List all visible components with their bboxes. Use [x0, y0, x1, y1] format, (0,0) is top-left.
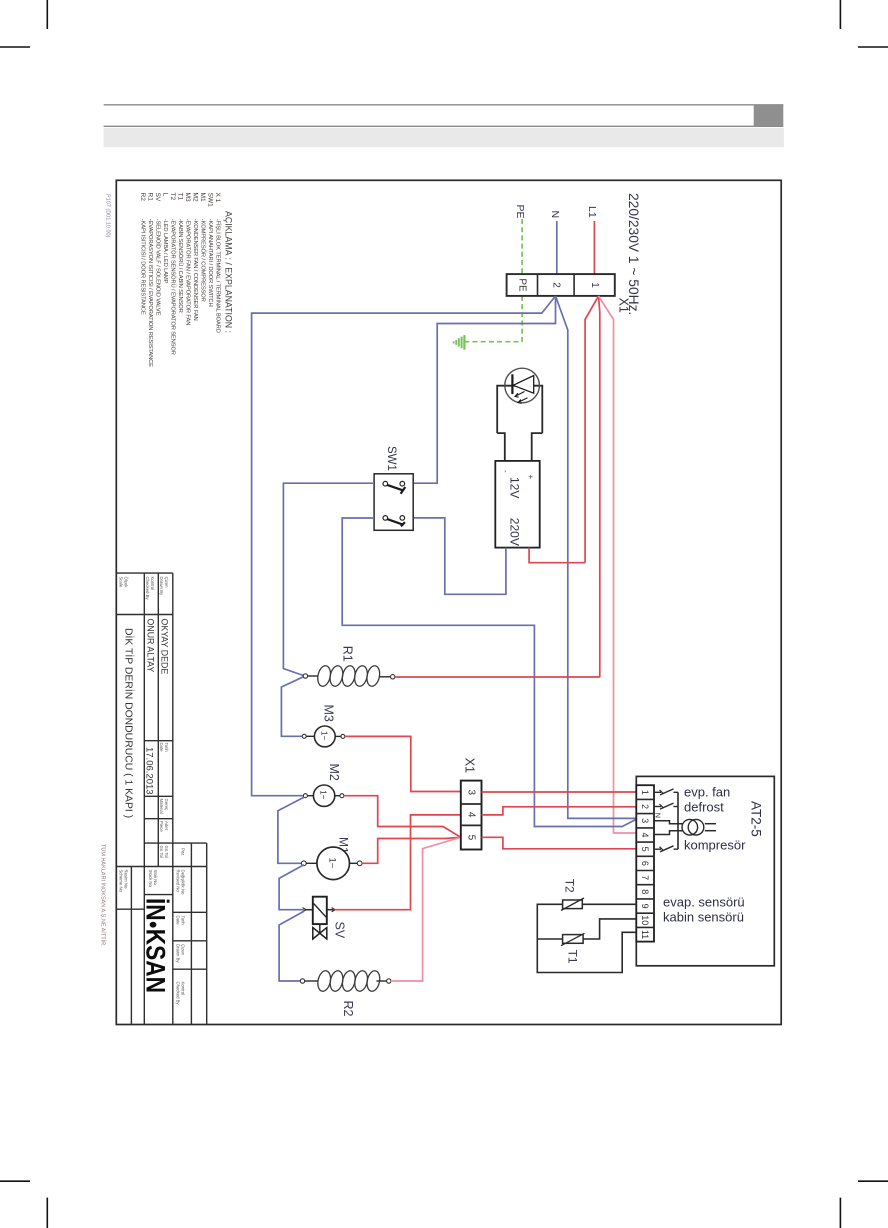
wire: R1 to live rail B (red) [395, 676, 600, 678]
SW1 contact B [383, 516, 388, 521]
svg-text:R2: R2 [341, 1001, 355, 1017]
svg-text:Scheme No: Scheme No [119, 870, 124, 893]
svg-text:5: 5 [466, 835, 477, 841]
svg-text:SV: SV [333, 922, 347, 939]
crop mark top-left [0, 0, 47, 47]
wire pin 4 to compressor winding [654, 831, 683, 835]
svg-text:-LED LAMBA / LED LAMP: -LED LAMBA / LED LAMP [162, 219, 168, 284]
svg-text:T1: T1 [177, 193, 184, 201]
evp. fan relay contact [654, 791, 661, 793]
svg-text:Piece: Piece [159, 821, 164, 832]
SW1 contact A [383, 481, 388, 486]
svg-text:T1: T1 [566, 950, 580, 964]
svg-text:M1: M1 [199, 193, 206, 202]
svg-text:1~: 1~ [319, 790, 328, 799]
wire L1 (red) [593, 221, 595, 274]
wire: transformer 220V red to live rail A [529, 548, 585, 563]
svg-text:10: 10 [640, 915, 650, 925]
svg-text:SW1: SW1 [207, 193, 214, 208]
lamp feed wires (fork) [497, 386, 542, 433]
svg-text:-EVAPORASYON ISITICISI / EVAPO: -EVAPORASYON ISITICISI / EVAPORATION RES… [147, 219, 153, 367]
wire T2 to pin 9 [582, 903, 636, 905]
svg-text:1: 1 [640, 790, 650, 795]
header rule bar [104, 105, 784, 127]
svg-text:3: 3 [640, 818, 650, 823]
svg-text:-EVAPORATÖR SENSÖRÜ / EVAPORAT: -EVAPORATÖR SENSÖRÜ / EVAPORATOR SENSOR [170, 219, 177, 355]
compressor winding symbol [682, 819, 698, 835]
svg-text:4: 4 [466, 812, 477, 818]
wire: neutral to AT2-5 term 3 (blue) [556, 296, 637, 818]
svg-text:8: 8 [640, 889, 650, 894]
title block grid [116, 573, 206, 1024]
drawing frame border [116, 180, 781, 1024]
LED lamp L [505, 368, 540, 403]
svg-text:Date: Date [159, 743, 164, 753]
svg-text:-: - [501, 470, 510, 473]
svg-text:220V: 220V [508, 518, 522, 546]
wire pin 3 to compressor winding [654, 821, 683, 824]
svg-text:T2: T2 [563, 879, 577, 893]
svg-text:-KAPI ISITICISI / DOOR RESISTA: -KAPI ISITICISI / DOOR RESISTANCE [140, 219, 146, 315]
PE wire continuation to earth [521, 296, 523, 342]
svg-text:defrost: defrost [684, 800, 724, 815]
svg-text:M2: M2 [327, 764, 341, 781]
svg-text:L: L [162, 193, 169, 197]
svg-text:İN●KSAN: İN●KSAN [141, 898, 171, 993]
svg-text:kabin sensörü: kabin sensörü [663, 910, 744, 925]
svg-text:11: 11 [640, 930, 650, 939]
svg-text:evp. fan: evp. fan [684, 785, 730, 800]
wire: neutral tap SV to R2 (blue) [279, 911, 304, 981]
svg-text:X 1: X 1 [214, 193, 221, 203]
svg-text:M3: M3 [184, 193, 191, 202]
svg-text:Poz: Poz [181, 848, 186, 855]
wire: M3 to X1 pin 3 (red) [345, 736, 461, 791]
svg-text:T2: T2 [169, 193, 176, 201]
svg-text:-KAPI ANAHTARI / DOOR SWITCH: -KAPI ANAHTARI / DOOR SWITCH [207, 219, 213, 307]
svg-text:2: 2 [550, 282, 561, 288]
AT2-5 terminal strip 1-11 [636, 785, 654, 941]
svg-text:Date: Date [176, 916, 181, 926]
svg-text:+: + [526, 475, 535, 480]
wire: X1 pin 5 to AT2-5 term 5 (red) [482, 837, 637, 849]
svg-text:TÜM HAKLARI İNOKSAN A.Ş.NE AİT: TÜM HAKLARI İNOKSAN A.Ş.NE AİTTİR. [100, 844, 107, 947]
svg-text:1: 1 [589, 282, 600, 288]
svg-text:R2: R2 [139, 193, 146, 202]
wire N (blue) [556, 221, 558, 274]
svg-text:Revised No: Revised No [176, 870, 181, 893]
svg-text:R1: R1 [147, 193, 154, 202]
svg-text:Scale: Scale [119, 577, 124, 588]
svg-text:N: N [549, 211, 561, 219]
wire: R2 to X1 pin 5 (pink) [391, 837, 461, 981]
svg-text:PE: PE [517, 278, 528, 292]
wire: live rail C (pink) to AT2-5 term 4 [599, 296, 637, 833]
svg-text:ONUR ALTAY: ONUR ALTAY [145, 619, 155, 673]
svg-text:-KOMPRESÖR / COMPRESSOR: -KOMPRESÖR / COMPRESSOR [200, 219, 207, 302]
wire PE (green dashed) [521, 219, 523, 274]
svg-text:5: 5 [640, 847, 650, 852]
wire: SW1 contact A to loads rail (blue) [283, 483, 374, 675]
svg-text:evap. sensörü: evap. sensörü [663, 895, 745, 910]
terminal block X1 (power) [507, 274, 615, 296]
svg-text:17.06.2013: 17.06.2013 [144, 747, 155, 795]
svg-text:1~: 1~ [319, 731, 328, 740]
wire: X1 pin 3 to AT2-5 term 1 (red) [482, 791, 637, 793]
svg-text:-KABİN SENSÖRÜ / CABIN SENSOR: -KABİN SENSÖRÜ / CABIN SENSOR [177, 219, 184, 313]
svg-text:Drawn By: Drawn By [159, 577, 164, 596]
svg-text:X1: X1 [617, 298, 631, 313]
svg-text:AT2-5: AT2-5 [749, 801, 764, 837]
svg-text:Gn.Tol: Gn.Tol [159, 846, 164, 858]
svg-text:Checked By: Checked By [145, 577, 150, 601]
svg-text:12V: 12V [508, 477, 522, 498]
svg-text:-EVAPORATÖR FAN / EVAPORATOR F: -EVAPORATÖR FAN / EVAPORATOR FAN [185, 219, 192, 325]
wire: neutral tap M1 to SV (blue) [279, 865, 304, 910]
svg-text:X1: X1 [462, 758, 476, 773]
resistor R2 (door heater) [300, 979, 304, 983]
svg-text:-FİŞLİ BLOK TERMİNAL / TERMINA: -FİŞLİ BLOK TERMİNAL / TERMINAL BOARD [215, 219, 222, 333]
wire: X1 pin 4 to AT2-5 term 2 (red) [482, 807, 637, 815]
wire: M1 to X1 pin 5 (red) [362, 837, 461, 863]
svg-text:Stock No: Stock No [148, 870, 153, 888]
svg-text:OKYAY DEDE: OKYAY DEDE [160, 619, 170, 675]
svg-text:2: 2 [640, 804, 650, 809]
svg-text:4: 4 [640, 832, 650, 837]
sensor T1 (cabin) [563, 935, 584, 944]
svg-text:1~: 1~ [326, 858, 337, 869]
svg-text:SW1: SW1 [385, 446, 397, 471]
defrost relay contact [654, 806, 661, 808]
svg-text:L1: L1 [586, 206, 598, 218]
transformer 220V/12V [495, 461, 539, 548]
door switch SW1 box [374, 474, 413, 531]
crop mark top-right [840, 0, 888, 47]
svg-text:M2: M2 [192, 193, 199, 202]
wire T1 to common [537, 938, 562, 940]
relay common rail [677, 792, 679, 849]
controller AT2-5 box [636, 776, 774, 965]
svg-text:9: 9 [640, 904, 650, 909]
wire T2 common to pin 11 [537, 904, 636, 972]
svg-text:N: N [653, 813, 662, 818]
svg-text:Checked By: Checked By [176, 982, 181, 1006]
svg-text:3: 3 [466, 790, 477, 796]
crop mark bottom-left [0, 1181, 47, 1228]
wire: R1 tap down to M3 (blue) [281, 677, 303, 737]
wire T1 to pin 10 [583, 919, 636, 939]
svg-text:M3: M3 [322, 705, 336, 722]
svg-text:PE: PE [514, 205, 526, 219]
wire: transformer 220V blue to SW1 contact B [413, 518, 506, 594]
svg-text:7: 7 [640, 875, 650, 880]
svg-text:Drawn By: Drawn By [176, 944, 181, 963]
svg-text:-KONDENSER FAN / CONDENSER FAN: -KONDENSER FAN / CONDENSER FAN [192, 219, 198, 321]
svg-text:R1: R1 [341, 646, 355, 662]
solenoid valve SV [305, 909, 313, 911]
svg-text:Material: Material [159, 799, 164, 814]
compressor relay contact [654, 848, 661, 850]
wire: SW1 contact B to lamp neutral (blue) [342, 518, 636, 827]
wire: M2 to X1 pin 5 (red) [344, 796, 461, 838]
svg-text:AÇIKLAMA : / EXPLANATION :: AÇIKLAMA : / EXPLANATION : [224, 211, 234, 333]
header gray band [104, 128, 784, 147]
svg-text:6: 6 [640, 861, 650, 866]
wire: live rail B (red) to R1 [599, 296, 600, 677]
wire: live fan to rail A (red) [585, 296, 598, 563]
svg-text:kompresör: kompresör [684, 838, 746, 853]
wire: SV to X1 pin 4 (red) [335, 815, 461, 910]
crop mark bottom-right [840, 1181, 888, 1228]
svg-text:P107 (D01.10.00): P107 (D01.10.00) [105, 194, 111, 238]
wire: neutral to SW1 contact A (blue) [413, 296, 555, 483]
svg-text:-SELENOİD VALF / SOLENOID VALV: -SELENOİD VALF / SOLENOID VALVE [155, 219, 162, 316]
wire: neutral tap M2 to M1 (blue) [278, 797, 304, 863]
svg-text:DİK TİP DERİN DONDURUCU ( 1 KA: DİK TİP DERİN DONDURUCU ( 1 KAPI ) [123, 628, 136, 818]
wire: neutral to long left rail (blue) [252, 296, 556, 796]
earth ground symbol [463, 335, 465, 350]
svg-text:SV: SV [154, 193, 161, 202]
terminal block X1 (pins 3-5) [461, 781, 482, 850]
